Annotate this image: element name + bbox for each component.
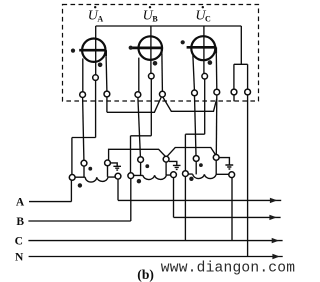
svg-text:C: C: [205, 15, 211, 24]
current lead A-right to terminal 2: [105, 56, 108, 91]
current lead C-left to terminal 5: [193, 55, 195, 90]
polarity dot left of C: [181, 40, 185, 44]
wire: S2 common link CT-A to CT-B to CT-C: [109, 148, 216, 161]
wire: terminal 1 drop to CT-A S1: [83, 98, 84, 161]
CT-C S1 stem: [195, 161, 197, 174]
phase line B right segment from CT-B: [174, 178, 281, 218]
svg-text:B: B: [152, 15, 158, 24]
arrow N: [272, 254, 279, 259]
voltage link circle B: [149, 73, 155, 79]
polarity dot CT-C secondary: [199, 163, 203, 167]
terminal 1: [80, 92, 86, 98]
arrow C: [272, 238, 279, 243]
meter element A (voltage coil circle): [79, 26, 106, 75]
label U_B: [143, 6, 159, 24]
current lead B-left to terminal 3: [138, 58, 140, 92]
polarity dot bottom-right of A: [98, 63, 103, 68]
polarity dot CT-B secondary: [145, 164, 149, 168]
ground at CT-C S2: [219, 158, 233, 169]
wire: jumper terminal 4 to terminal 6: [163, 97, 217, 111]
CT-C secondary terminal S1: [193, 156, 199, 162]
ground at CT-A S2: [110, 163, 121, 170]
terminal 4: [160, 91, 166, 97]
CT-B secondary terminal S1: [138, 157, 144, 163]
ground at CT-B S2: [169, 161, 181, 169]
svg-text:(b): (b): [137, 267, 154, 282]
CT-A primary bus with secondary winding bumps: [75, 176, 115, 178]
CT-B S2 stem: [165, 162, 167, 175]
CT-B secondary terminal S2: [163, 156, 169, 162]
CT-B primary right terminal: [171, 172, 177, 178]
wire: terminal 8 neutral drop: [247, 95, 249, 257]
CT-C primary left terminal: [183, 171, 189, 177]
terminal 2: [104, 91, 110, 97]
neutral line N: [29, 256, 283, 258]
current lead B-right to terminal 4: [161, 54, 164, 92]
wire: terminal 2 drop and jumper to terminal 4: [107, 97, 161, 112]
CT-C primary bus with secondary winding bumps: [188, 173, 229, 175]
svg-text:A: A: [16, 197, 25, 209]
polarity dot CT-A primary: [78, 183, 82, 187]
terminal 7 stub: [233, 95, 235, 101]
polarity dot left of B: [129, 46, 133, 50]
CT-A secondary terminal S2: [105, 160, 111, 166]
voltage link circle A: [93, 75, 99, 81]
terminal 8: [245, 89, 251, 95]
svg-text:C: C: [15, 236, 23, 248]
label U_A: [88, 6, 104, 24]
svg-text:N: N: [15, 252, 24, 264]
polarity dot left of A: [71, 49, 75, 53]
wire: B voltage stem down through case: [150, 79, 152, 136]
wire: riser C line to CT-C left: [184, 177, 186, 241]
meter element C (voltage coil circle): [187, 26, 217, 73]
phase line A left segment: [29, 180, 71, 201]
wire: voltage-coil common top bus y=26: [96, 25, 242, 27]
current lead A-left to terminal 1: [82, 58, 84, 91]
wire: B voltage tap jog to CT-B primary left: [131, 136, 152, 173]
CT-B S1 stem: [140, 163, 142, 176]
phase line B left segment: [28, 179, 130, 221]
terminal 7: [231, 89, 237, 95]
CT-A S1 stem: [83, 166, 85, 177]
label U_C: [195, 6, 211, 24]
wire: terminal 6 drop to CT-C S2: [215, 95, 218, 155]
meter enclosure dashed box: [63, 5, 259, 102]
svg-text:www.diangon.com: www.diangon.com: [161, 260, 295, 276]
polarity dot bottom-right of B: [153, 61, 158, 66]
wire: A voltage tap jog to CT-A primary left: [72, 138, 96, 175]
CT-A S2 stem: [107, 166, 109, 177]
polarity dot CT-A secondary: [88, 167, 92, 171]
CT-C secondary terminal S2: [213, 155, 219, 161]
phase line C with CT risers: [28, 240, 282, 242]
terminal 3: [135, 92, 141, 98]
svg-text:B: B: [16, 216, 24, 228]
wire: terminal 5 drop to CT-C S1: [195, 96, 197, 156]
arrow A: [270, 198, 277, 203]
CT-B primary left terminal: [128, 173, 134, 179]
arrow B: [269, 215, 276, 220]
phase line A right segment from CT-A: [118, 179, 281, 200]
polarity dot CT-C primary: [189, 177, 193, 181]
terminal 6: [214, 89, 220, 95]
wire: terminal 3 drop to CT-B S1: [138, 98, 141, 157]
CT-C primary right terminal: [229, 172, 235, 178]
voltage link circle C: [202, 73, 208, 79]
polarity dot bottom-right of C: [208, 60, 213, 65]
wire: C voltage stem down through case: [204, 79, 206, 134]
meter element B (voltage coil circle): [132, 26, 163, 73]
terminal 5: [192, 90, 198, 96]
current lead C-right to terminal 6: [215, 53, 218, 89]
wire: C voltage tap jog to CT-C primary left: [185, 134, 204, 171]
wire: riser CT-C right to C line: [231, 178, 233, 241]
svg-text:A: A: [97, 15, 103, 24]
wire: common bus drop to terminal split: [234, 26, 248, 89]
wire: A voltage stem down through case: [95, 80, 97, 137]
polarity dot CT-B primary: [137, 179, 141, 183]
CT-A secondary terminal S1: [81, 160, 87, 166]
CT-B primary bus with secondary winding bumps: [134, 174, 171, 176]
CT-A primary right terminal: [115, 173, 121, 179]
CT-C S2 stem: [215, 160, 217, 174]
CT-A primary left terminal: [69, 175, 75, 181]
